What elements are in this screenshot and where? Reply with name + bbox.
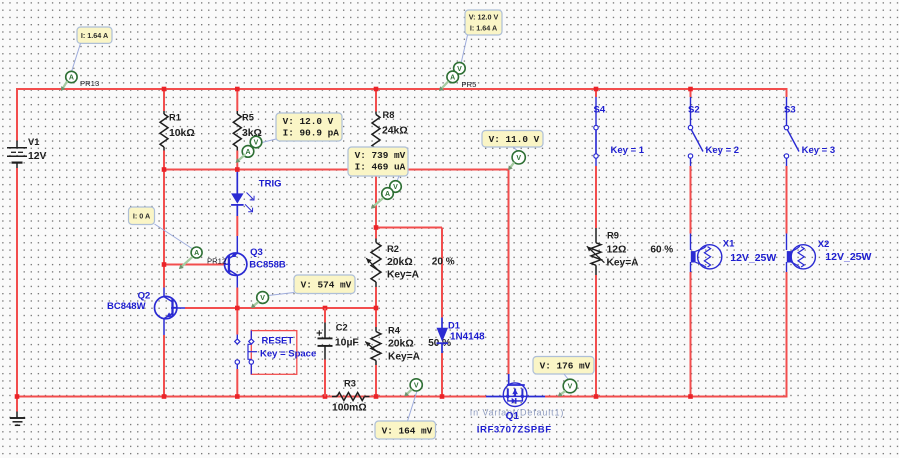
svg-text:Key=A: Key=A [387, 270, 420, 281]
svg-text:PR13: PR13 [80, 79, 99, 88]
svg-text:S2: S2 [688, 105, 700, 116]
svg-text:D1: D1 [448, 320, 460, 330]
svg-text:BC858B: BC858B [249, 260, 286, 271]
svg-text:I: 1.64 A: I: 1.64 A [470, 24, 497, 33]
svg-text:V: V [414, 383, 419, 390]
svg-text:Key=A: Key=A [388, 352, 421, 363]
svg-text:V: 739 mV: V: 739 mV [355, 150, 406, 161]
svg-text:Key = 3: Key = 3 [802, 145, 836, 156]
svg-text:X1: X1 [723, 238, 735, 249]
svg-text:I: 0 A: I: 0 A [133, 211, 150, 220]
svg-text:24kΩ: 24kΩ [382, 126, 408, 137]
svg-text:C2: C2 [336, 322, 348, 332]
svg-text:V: V [516, 155, 521, 162]
svg-text:V: 12.0 V: V: 12.0 V [469, 13, 499, 22]
svg-text:R5: R5 [242, 113, 254, 123]
svg-text:R1: R1 [169, 113, 181, 123]
svg-text:S4: S4 [594, 105, 606, 116]
svg-text:R9: R9 [607, 231, 619, 241]
svg-text:PR5: PR5 [461, 80, 476, 89]
svg-text:I: 1.64 A: I: 1.64 A [81, 31, 108, 40]
svg-text:1N4148: 1N4148 [450, 331, 485, 342]
svg-text:R3: R3 [344, 378, 356, 388]
svg-text:V: V [568, 384, 573, 391]
svg-text:V: 574 mV: V: 574 mV [301, 280, 352, 291]
svg-text:I: 469 uA: I: 469 uA [355, 162, 406, 173]
svg-text:V1: V1 [28, 137, 39, 147]
svg-text:V: V [260, 295, 265, 302]
svg-text:Key=A: Key=A [607, 258, 640, 269]
svg-text:R4: R4 [388, 326, 401, 336]
svg-text:V: 11.0 V: V: 11.0 V [489, 134, 540, 145]
svg-text:A: A [450, 75, 455, 82]
svg-text:IRF3707ZSPBF: IRF3707ZSPBF [477, 424, 552, 435]
svg-text:60 %: 60 % [650, 245, 673, 256]
svg-text:S3: S3 [784, 105, 796, 116]
svg-text:V: V [393, 184, 398, 191]
svg-text:BC848W: BC848W [107, 301, 146, 312]
svg-text:Key = 1: Key = 1 [611, 145, 645, 156]
svg-text:V: V [457, 66, 462, 73]
svg-text:100mΩ: 100mΩ [332, 403, 367, 414]
svg-text:V: 176 mV: V: 176 mV [540, 361, 591, 372]
svg-text:12V_25W: 12V_25W [825, 251, 871, 263]
svg-text:Key = Space: Key = Space [260, 348, 316, 359]
svg-text:V: 164 mV: V: 164 mV [382, 425, 433, 436]
svg-text:TRIG: TRIG [259, 178, 282, 189]
svg-text:Key = 2: Key = 2 [706, 145, 740, 156]
svg-text:Q3: Q3 [250, 247, 263, 258]
svg-text:10kΩ: 10kΩ [169, 128, 195, 139]
svg-text:R2: R2 [387, 244, 399, 254]
svg-text:A: A [385, 191, 390, 198]
svg-text:12V_25W: 12V_25W [730, 252, 776, 264]
svg-text:10µF: 10µF [335, 338, 359, 349]
svg-text:RESET: RESET [262, 335, 294, 346]
svg-text:Q2: Q2 [138, 290, 151, 301]
svg-text:R8: R8 [383, 110, 395, 120]
svg-text:20kΩ: 20kΩ [387, 257, 413, 268]
svg-text:A: A [69, 75, 74, 82]
svg-text:Q1: Q1 [506, 411, 520, 422]
svg-text:20 %: 20 % [432, 257, 455, 268]
svg-text:I: 90.9 pA: I: 90.9 pA [283, 128, 340, 139]
svg-text:20kΩ: 20kΩ [388, 339, 414, 350]
svg-text:PR12: PR12 [207, 257, 226, 266]
svg-text:V: 12.0 V: V: 12.0 V [283, 116, 334, 127]
svg-text:12Ω: 12Ω [607, 245, 627, 256]
svg-text:A: A [194, 250, 199, 257]
svg-text:12V: 12V [28, 151, 47, 162]
svg-text:X2: X2 [818, 239, 830, 250]
svg-text:V: V [254, 140, 259, 147]
